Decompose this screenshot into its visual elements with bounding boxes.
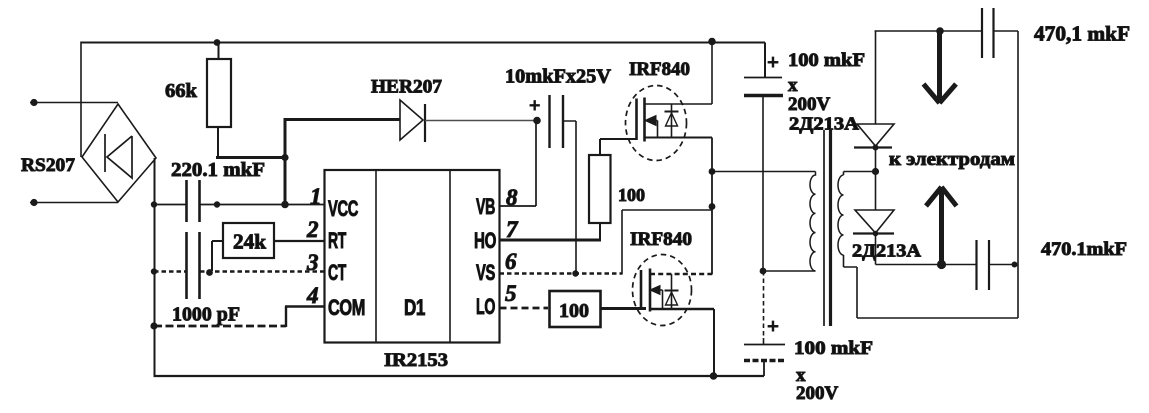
transistor Q1 IRF840 top <box>626 86 713 161</box>
wire left drop from top rail to bridge <box>80 42 82 158</box>
wire VS spur to half-bridge <box>622 210 712 275</box>
node output bottom / right rail <box>1012 262 1018 268</box>
svg-text:1: 1 <box>310 184 322 209</box>
wire VCC line pin 1 <box>154 204 325 206</box>
capacitor 10mkFx25V <box>550 95 564 148</box>
wire primary bottom <box>763 270 816 272</box>
node half-bridge / VS <box>709 203 716 210</box>
wire gate bottom MOSFET <box>601 307 647 310</box>
capacitor 1000 pF plates <box>187 232 200 299</box>
wire RT pin 2 <box>274 240 325 242</box>
svg-text:VB: VB <box>476 194 495 219</box>
svg-text:100: 100 <box>618 185 645 205</box>
svg-text:IR2153: IR2153 <box>384 350 448 371</box>
svg-text:2Д213А: 2Д213А <box>852 241 921 261</box>
svg-text:470.1mkF: 470.1mkF <box>1041 239 1127 260</box>
node CT / 24k junction <box>206 269 213 276</box>
capacitor 220.1 mkF plates <box>187 180 200 222</box>
wire bottom rail <box>154 375 765 377</box>
svg-text:IRF840: IRF840 <box>630 229 692 250</box>
wire AC input top <box>30 102 118 104</box>
node 66k / vertical junction <box>281 154 288 161</box>
electrode arrow down <box>937 31 942 100</box>
svg-text:220.1 mkF: 220.1 mkF <box>171 159 265 181</box>
svg-text:+: + <box>767 314 779 338</box>
wire diode chain bottom to output minus <box>876 234 1017 265</box>
wire COM pin 4 dashed <box>154 325 286 328</box>
transformer primary winding <box>810 172 816 272</box>
wire output top rail <box>875 30 1019 32</box>
svg-text:470,1 mkF: 470,1 mkF <box>1034 22 1130 46</box>
wire HO pin 7 <box>500 239 602 242</box>
diode 2D213A bottom <box>855 210 894 233</box>
svg-text:IRF840: IRF840 <box>629 59 690 80</box>
op-amp U1 IR2153 IC body <box>325 170 500 343</box>
wire right vertex drop to bottom rail <box>154 158 156 376</box>
svg-text:2: 2 <box>306 217 319 242</box>
node HER207 / 10mkF / VB junction <box>533 117 541 125</box>
wire top MOSFET drain to rail <box>711 43 713 105</box>
svg-text:VS: VS <box>476 260 495 285</box>
capacitor 470.1mkF bottom <box>977 240 990 290</box>
transformer secondary winding <box>838 175 843 255</box>
transistor Q2 IRF840 bottom <box>633 255 715 326</box>
wire 24k left link <box>212 241 223 271</box>
node top rail / drain <box>708 38 716 46</box>
wire VB pin 8 <box>500 120 537 206</box>
wire secondary bottom path <box>844 31 1019 318</box>
svg-text:RS207: RS207 <box>21 155 76 176</box>
svg-text:LO: LO <box>476 294 495 319</box>
node AC input bottom terminal <box>30 199 37 206</box>
svg-text:100 mkF: 100 mkF <box>794 338 873 359</box>
wire LO pin 5 dashed <box>500 307 549 310</box>
wire HER207 anode feed <box>284 118 401 121</box>
resistor 100 bottom gate <box>550 291 601 327</box>
node VS / 10mkF junction <box>572 270 578 276</box>
svg-text:CT: CT <box>328 260 347 285</box>
wire capacitor midpoint rail <box>762 96 764 271</box>
wire between diodes <box>875 146 877 210</box>
node primary / cap midpoint <box>760 268 767 275</box>
node bottom rail / source <box>710 372 718 380</box>
node left rail / CT <box>151 268 157 274</box>
wire thick vertical VCC feed <box>284 120 287 206</box>
svg-text:D1: D1 <box>404 295 425 320</box>
svg-text:66k: 66k <box>165 80 198 102</box>
wire AC input bottom <box>30 202 118 204</box>
wire 10mkF right plate to VS <box>563 121 576 274</box>
svg-text:+: + <box>529 95 540 117</box>
svg-text:COM: COM <box>328 295 365 320</box>
svg-text:HER207: HER207 <box>371 77 442 98</box>
capacitor 470,1 mkF top <box>982 8 994 58</box>
wire CT line pin 3 dashed <box>154 270 325 273</box>
wire thick elbow 66k to VCC node <box>216 156 285 159</box>
node secondary top / diode chain <box>872 168 879 175</box>
node AC input top terminal <box>30 99 37 106</box>
svg-text:к электродам: к электродам <box>889 149 1015 170</box>
wire diode chain top <box>875 31 877 124</box>
bridge rectifier RS207 inner diode <box>105 134 132 178</box>
wire top rail <box>81 42 765 44</box>
node VCC / cap junction <box>214 201 220 207</box>
svg-text:200V: 200V <box>796 383 839 404</box>
node left rail / VCC <box>151 201 157 207</box>
wire VS pin 6 dashed <box>500 272 623 275</box>
node left rail / COM <box>150 322 157 329</box>
resistor 100 gate top <box>599 223 601 240</box>
svg-text:3: 3 <box>306 250 319 275</box>
node output top / arrow <box>936 27 944 35</box>
svg-text:HO: HO <box>474 228 496 253</box>
wire primary top <box>712 171 816 173</box>
wire HER207 cathode to VB node <box>425 120 537 122</box>
node half-bridge / primary <box>709 168 716 175</box>
svg-text:VCC: VCC <box>328 196 358 221</box>
svg-text:7: 7 <box>506 217 519 242</box>
svg-text:6: 6 <box>505 249 517 274</box>
diode 2D213A top <box>857 124 894 146</box>
node top rail / 66k junction <box>214 39 221 46</box>
electrode arrow up <box>939 188 944 265</box>
wire half-bridge node drop <box>711 138 713 275</box>
node VCC / thick vertical junction <box>281 201 289 209</box>
resistor 24k <box>223 223 274 258</box>
svg-text:24k: 24k <box>233 230 266 254</box>
diode HER207 <box>400 100 423 140</box>
svg-text:+: + <box>767 50 779 74</box>
capacitor 100 mkF 200V bottom <box>744 344 785 346</box>
svg-text:4: 4 <box>306 283 319 308</box>
bridge rectifier RS207 diamond <box>82 104 156 202</box>
wire bottom MOSFET source to bottom rail <box>713 309 715 376</box>
resistor 66k <box>218 43 220 60</box>
svg-text:100: 100 <box>559 300 589 322</box>
svg-text:1000 pF: 1000 pF <box>172 304 240 326</box>
svg-text:5: 5 <box>505 281 517 306</box>
svg-text:10mkFx25V: 10mkFx25V <box>505 66 612 88</box>
transformer core <box>823 130 825 326</box>
wire gate top MOSFET <box>600 138 637 140</box>
svg-text:200V: 200V <box>788 94 831 115</box>
svg-text:x: x <box>788 75 798 96</box>
wire secondary top <box>844 172 877 176</box>
svg-text:RT: RT <box>328 228 347 253</box>
svg-text:100 mkF: 100 mkF <box>788 50 865 71</box>
capacitor 100 mkF 200V top <box>764 43 766 78</box>
